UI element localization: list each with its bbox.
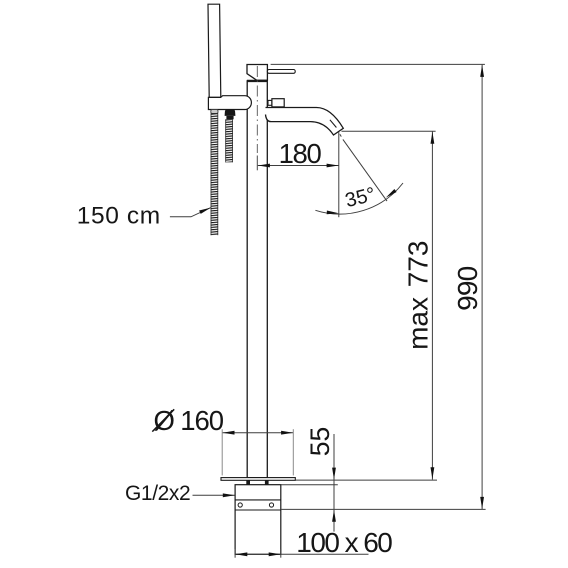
svg-text:55: 55 <box>305 427 335 456</box>
svg-text:max 773: max 773 <box>403 240 434 349</box>
svg-text:990: 990 <box>452 266 483 311</box>
svg-text:150 cm: 150 cm <box>77 202 161 229</box>
svg-text:G1/2x2: G1/2x2 <box>125 482 190 505</box>
svg-text:100 x 60: 100 x 60 <box>296 527 392 558</box>
svg-text:180: 180 <box>279 138 322 169</box>
